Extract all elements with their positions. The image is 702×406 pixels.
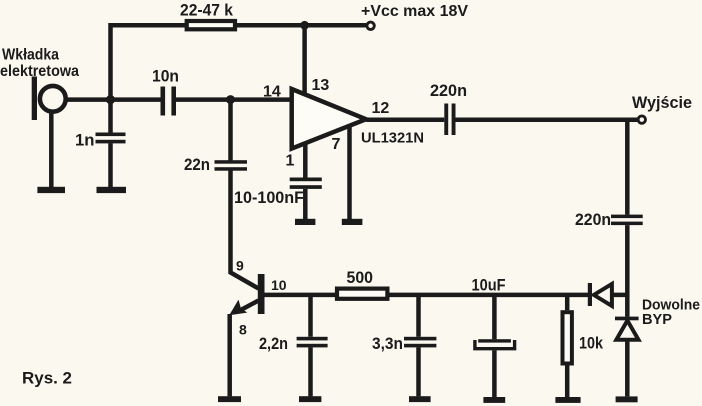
label Wkładka elektretowa	[0, 47, 79, 81]
transistor Q1 emitter with arrow	[238, 301, 259, 312]
transistor Q1 base bar	[258, 274, 265, 314]
svg-text:13: 13	[312, 77, 330, 94]
svg-text:14: 14	[263, 83, 281, 100]
svg-text:10: 10	[271, 277, 287, 293]
resistor R1 22-47k	[187, 21, 235, 29]
ground (C7)	[299, 396, 321, 402]
ground (R3)	[555, 397, 580, 403]
ground (D2)	[616, 396, 638, 402]
svg-text:Wyjście: Wyjście	[632, 93, 692, 112]
microphone MIC electret	[32, 77, 66, 121]
svg-text:elektretowa: elektretowa	[0, 63, 79, 80]
wire feedback: top rail with corner down to node A	[111, 25, 367, 100]
wire mic ground lead	[49, 111, 54, 187]
ground (C8)	[409, 396, 431, 402]
wire mic to node A	[66, 97, 111, 102]
svg-text:12: 12	[372, 100, 390, 117]
svg-text:10k: 10k	[579, 334, 603, 353]
ground (Q1 emitter)	[218, 396, 241, 402]
svg-text:10-100nF: 10-100nF	[234, 188, 304, 207]
wire C8 to ground	[416, 347, 421, 396]
wire C2 to op-amp input	[176, 97, 293, 102]
ground (C4)	[295, 219, 315, 225]
wire pin 1 down to C4	[303, 143, 308, 178]
ground (mic)	[37, 187, 65, 193]
svg-text:Wkładka: Wkładka	[2, 47, 59, 64]
wire C8 branch down	[416, 295, 421, 337]
wire C6 down to diode node	[625, 225, 630, 317]
wire C4 to ground	[303, 189, 308, 219]
wire C7 to ground	[308, 347, 313, 396]
ground (C1)	[97, 187, 127, 193]
wire output pin 12 to C5	[366, 118, 444, 123]
svg-text:7: 7	[332, 136, 341, 153]
diode D1	[594, 284, 612, 306]
resistor R3 10k	[563, 312, 572, 363]
wire node C down to C3	[228, 100, 233, 161]
capacitor C6 220n	[611, 215, 643, 226]
capacitor C2 10n	[161, 87, 177, 116]
svg-text:220n: 220n	[430, 81, 467, 100]
svg-text:1: 1	[286, 153, 295, 170]
wire bottom rail from Q1 base	[265, 293, 589, 298]
capacitor C8 3,3n	[404, 337, 436, 348]
node A junction dot	[106, 95, 115, 104]
svg-text:1n: 1n	[75, 131, 95, 150]
terminal +Vcc	[367, 22, 374, 29]
wire pin 13 drop from rail to op-amp	[302, 25, 307, 97]
wire pin 7 to ground	[347, 126, 352, 219]
node B junction dot on rail	[300, 21, 309, 30]
ground (pin 7)	[342, 219, 363, 225]
svg-text:10uF: 10uF	[472, 275, 506, 294]
wire C9 to ground	[492, 350, 497, 397]
wire C9 branch down	[492, 295, 497, 339]
svg-text:220n: 220n	[575, 210, 611, 229]
svg-text:3,3n: 3,3n	[372, 334, 403, 353]
capacitor C1 1n	[96, 133, 126, 144]
svg-text:22-47 k: 22-47 k	[180, 1, 233, 20]
svg-text:9: 9	[236, 258, 244, 274]
op-amp U1 UL1321N	[292, 89, 366, 149]
wire C5 to output terminal	[456, 118, 639, 123]
svg-text:Rys. 2: Rys. 2	[22, 370, 72, 388]
svg-text:500: 500	[347, 268, 374, 287]
wire R3 to ground	[565, 366, 570, 398]
svg-text:22n: 22n	[184, 155, 210, 174]
terminal Wyjście	[638, 116, 645, 123]
wire D1 to output branch	[612, 293, 629, 298]
wire node A down to C1	[108, 100, 113, 133]
svg-text:BYP: BYP	[642, 311, 672, 328]
diode D2 BYP cathode bar	[615, 317, 639, 321]
wire emitter to ground	[227, 314, 232, 396]
wire output branch down to C6	[625, 120, 630, 215]
capacitor C3 22n	[215, 160, 248, 171]
wire C7 branch down	[308, 295, 313, 337]
wire node A to C2	[111, 97, 161, 102]
diode D1 cathode bar	[588, 283, 592, 306]
wire C3 down to transistor collector	[231, 171, 259, 289]
node C junction dot	[226, 95, 235, 104]
capacitor C9 10uF electrolytic	[478, 339, 511, 342]
wire D2 to ground	[625, 340, 630, 397]
capacitor C5 220n	[444, 104, 455, 136]
ground (C9)	[483, 397, 505, 403]
svg-text:8: 8	[239, 322, 247, 338]
svg-text:UL1321N: UL1321N	[361, 129, 424, 146]
svg-text:+Vcc max 18V: +Vcc max 18V	[361, 3, 469, 20]
svg-text:10n: 10n	[152, 67, 179, 86]
resistor R2 500	[337, 289, 387, 299]
diode D2 BYP	[616, 321, 638, 340]
svg-text:2,2n: 2,2n	[259, 334, 288, 353]
wire R3 branch down	[565, 295, 570, 310]
capacitor C4 10-100nF	[290, 178, 322, 189]
capacitor C7 2,2n	[297, 337, 328, 348]
wire C1 to ground	[108, 143, 113, 187]
